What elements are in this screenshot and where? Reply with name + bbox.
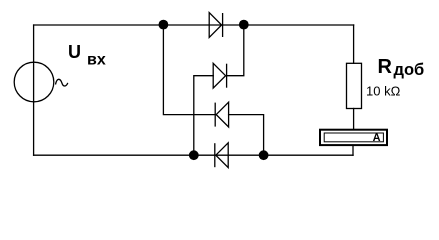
- diode VD4 (bottom row, pointing left): [215, 143, 228, 168]
- diode VD2 (second row, pointing right): [213, 63, 226, 88]
- svg-text:R: R: [378, 56, 393, 78]
- AC source G1: [14, 62, 68, 102]
- node D (bottom-right junction): [259, 150, 269, 160]
- diode VD1 (top row, pointing right): [209, 13, 222, 38]
- wire left vertical through source: [33, 25, 35, 155]
- node B (top-right junction): [239, 20, 249, 30]
- svg-text:10 kΩ: 10 kΩ: [366, 83, 401, 98]
- wire row3 right leg to bottom node D: [229, 115, 264, 156]
- svg-text:A: A: [373, 132, 381, 144]
- wire row2 left leg to bottom node C: [194, 76, 213, 156]
- ammeter PA1 body: [320, 130, 387, 145]
- wire bottom bus: [34, 154, 353, 156]
- node C (bottom-left junction): [189, 150, 199, 160]
- svg-text:U: U: [68, 42, 81, 62]
- wire resistor to ammeter: [353, 109, 355, 130]
- wire node B down-leg (top-right node to row2): [227, 25, 244, 76]
- resistor Rdob body: [347, 63, 362, 108]
- node A (top-left junction): [159, 20, 169, 30]
- wire top bus from source to right branch: [34, 24, 354, 26]
- wire node A down-leg (top-left node to row3): [163, 25, 215, 115]
- wire right branch top (to resistor): [353, 25, 355, 63]
- svg-text:доб: доб: [394, 61, 425, 79]
- svg-text:вх: вх: [87, 51, 106, 68]
- label U vx: [68, 42, 106, 69]
- wire ammeter to bottom bus: [352, 145, 354, 155]
- diode VD3 (third row, pointing left): [215, 102, 228, 127]
- label R dob: [378, 56, 425, 79]
